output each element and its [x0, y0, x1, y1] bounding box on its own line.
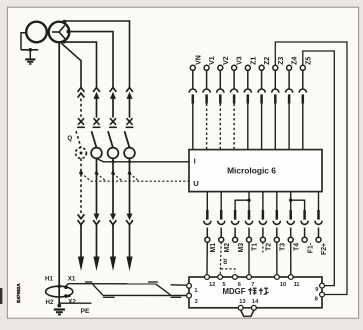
breaker Q pole 3: downstream drawout contact — [127, 214, 133, 221]
wire pole N (dashed) — [80, 99, 82, 118]
svg-text:12: 12 — [209, 282, 215, 288]
voltage tap pole N — [79, 171, 83, 175]
svg-text:10: 10 — [280, 282, 286, 288]
wire pole 2 lower — [112, 158, 114, 214]
wire Micrologic to contact M2 — [220, 192, 222, 210]
svg-text:M2: M2 — [224, 243, 231, 253]
wire Z1 to Micrologic — [247, 104, 249, 150]
scan mark left edge — [0, 288, 2, 304]
disconnect contact V2 (male pin) — [219, 94, 222, 103]
load arrow pole 1 — [93, 257, 99, 272]
wire pole 1 to load — [96, 224, 98, 258]
breaker Q pole N: upstream drawout contact — [78, 88, 85, 92]
current transformer pole 1 — [91, 148, 102, 159]
wire V2 to Micrologic — [219, 104, 221, 150]
wire pole 1 — [96, 98, 98, 117]
voltage tap pole 1 — [94, 170, 98, 175]
terminal V1 — [204, 65, 209, 70]
MDGF terminal 14 — [252, 305, 257, 310]
load arrow pole N — [78, 257, 84, 272]
disconnect contact V2 (female) — [217, 89, 224, 93]
svg-text:V2: V2 — [223, 56, 230, 65]
wire branch to M3 contact — [235, 200, 249, 210]
svg-text:E47682A: E47682A — [16, 283, 21, 303]
terminal M3 — [233, 237, 238, 242]
svg-text:F2+: F2+ — [321, 243, 328, 255]
wire to terminal T2 — [262, 228, 264, 238]
wire neutral from transformer — [61, 43, 81, 87]
terminal Z4 — [287, 65, 292, 70]
wire Z2 to Micrologic — [261, 104, 263, 150]
svg-text:or: or — [222, 258, 229, 265]
sensor secondary terminal X1 — [64, 285, 68, 289]
svg-text:T2: T2 — [266, 243, 273, 251]
disconnect contact V3 (male pin) — [233, 94, 236, 103]
svg-text:Z1: Z1 — [250, 57, 257, 65]
terminal M1 — [205, 237, 210, 242]
label CJK module glyph 2 — [259, 288, 269, 295]
breaker Q pole 3: blade — [125, 131, 130, 148]
disconnect contact M3 (female) — [232, 221, 239, 225]
disconnect contact VN (female) — [189, 89, 196, 93]
terminal T1 — [247, 237, 252, 242]
disconnect contact Z5 (male pin) — [302, 94, 305, 103]
wire terminal V2 stem — [219, 70, 221, 89]
svg-text:M3: M3 — [238, 243, 245, 253]
transformer T1 secondary winding (wye) — [49, 22, 70, 43]
disconnect contact M2 (female) — [218, 221, 225, 225]
terminal Z5 — [300, 65, 305, 70]
voltage tap pole 2 — [111, 170, 115, 175]
svg-text:U: U — [193, 179, 199, 188]
wire transformer neutral riser to ground CT — [58, 42, 60, 306]
current transformer pole 3 — [124, 148, 135, 159]
MDGF terminal 9 — [320, 283, 325, 288]
wire terminal V1 stem — [206, 70, 208, 89]
wire X1 pair upper run — [71, 283, 156, 285]
svg-text:Micrologic 6: Micrologic 6 — [227, 166, 276, 176]
breaker Q pole N: contact — [78, 118, 84, 125]
terminal T3 — [274, 237, 279, 242]
transformer T1 primary winding — [26, 22, 47, 43]
wire phase C from transformer — [65, 21, 130, 87]
wire pole 3 — [129, 98, 131, 117]
MDGF terminal 1 — [187, 283, 192, 288]
wire M2 alt to MDGF terminal 6 (dashed) — [221, 269, 235, 272]
terminal Z2 — [259, 65, 264, 70]
ground (system earth) — [25, 58, 35, 60]
breaker Q pole N: blade — [76, 131, 81, 148]
disconnect contact T3 (female) — [273, 221, 280, 225]
svg-text:1: 1 — [194, 288, 197, 294]
wire branch to F1- contact — [291, 200, 305, 210]
wire to terminal T4 — [290, 228, 292, 238]
wire into MDGF terminal 1 — [171, 284, 187, 286]
disconnect contact V1 (male pin) — [205, 94, 208, 103]
svg-text:8: 8 — [315, 297, 318, 303]
disconnect contact T3 (male pin) — [276, 210, 279, 220]
svg-text:V1: V1 — [209, 56, 216, 65]
label CJK module glyph 1 — [248, 288, 256, 295]
disconnect contact M3 (male pin) — [234, 210, 237, 220]
wire Micrologic to contact M1 — [206, 192, 208, 210]
wire to terminal M3 — [234, 228, 236, 238]
wire to terminal T3 — [276, 228, 278, 238]
twist crossover left — [93, 284, 103, 295]
terminal T2 — [260, 237, 265, 242]
wire Micrologic to contact T2 — [262, 192, 264, 210]
MDGF terminal 5 — [218, 275, 223, 280]
wire pole 3 to load — [129, 224, 131, 258]
svg-text:Z2: Z2 — [264, 57, 271, 65]
node PE junction — [57, 304, 61, 308]
wire to terminal M1 — [206, 228, 208, 238]
wire pole N to load — [80, 224, 82, 258]
svg-text:H2: H2 — [46, 299, 54, 306]
terminal Z1 — [245, 65, 250, 70]
breaker Q pole N: downstream drawout contact — [78, 214, 85, 218]
disconnect contact T2 (female) — [259, 221, 266, 225]
svg-text:H1: H1 — [45, 276, 53, 283]
disconnect contact Z3 (male pin) — [274, 94, 277, 103]
disconnect contact T2 (male pin) — [262, 210, 265, 220]
wire terminal VN stem — [192, 70, 194, 89]
disconnect contact F1- (female) — [301, 221, 308, 225]
ground CT (H1/H2 X1/X2 sensor) — [46, 286, 73, 297]
svg-text:T4: T4 — [293, 243, 300, 251]
MDGF terminal 10 — [275, 275, 280, 280]
MDGF terminal 8 — [320, 292, 325, 297]
wire V1 to Micrologic — [206, 104, 208, 150]
ground PE electrode — [54, 308, 65, 310]
node: transformer line terminals — [62, 20, 66, 24]
load arrow pole 3 — [126, 257, 132, 272]
breaker Q pole 1: blade — [92, 131, 97, 148]
wire transformer neutral to earth — [21, 33, 26, 50]
svg-text:X1: X1 — [68, 276, 76, 283]
wire to terminal F2+ — [318, 228, 320, 238]
breaker Q pole 3: upstream drawout contact — [126, 88, 133, 92]
wire pole 3 lower — [129, 158, 131, 214]
breaker Q pole 1: contact — [94, 118, 100, 125]
terminal Z3 — [273, 65, 278, 70]
svg-text:PE: PE — [80, 308, 90, 315]
sensor secondary terminal X2 — [64, 294, 68, 298]
svg-text:6: 6 — [238, 282, 241, 288]
current transformer pole N — [76, 148, 87, 159]
svg-text:T1: T1 — [252, 243, 259, 251]
disconnect contact M2 (male pin) — [220, 210, 223, 220]
disconnect contact F2+ (male pin) — [317, 210, 320, 220]
wire Z4 to Micrologic — [288, 104, 290, 150]
junction T1 / M3 branch — [247, 199, 250, 202]
svg-text:T3: T3 — [280, 243, 287, 251]
disconnect contact F2+ (female) — [315, 221, 322, 225]
MDGF terminal 11 — [288, 275, 293, 280]
terminal T4 — [288, 237, 293, 242]
wire T4 to MDGF terminal 11 — [290, 242, 292, 274]
terminal V3 — [232, 65, 237, 70]
load arrow pole 2 — [110, 257, 116, 272]
node: earth bar — [21, 49, 38, 51]
wire terminal Z4 stem — [288, 70, 290, 89]
svg-text:13: 13 — [239, 299, 245, 305]
disconnect contact M1 (male pin) — [206, 210, 209, 220]
disconnect contact Z1 (female) — [244, 89, 251, 93]
svg-text:14: 14 — [252, 299, 259, 305]
wire terminal Z2 stem — [261, 70, 263, 89]
current transformer pole 2 — [108, 148, 119, 159]
wire pole 1 lower — [96, 158, 98, 214]
voltage tap pole 3 — [127, 170, 131, 175]
breaker Q pole 3: contact — [127, 118, 133, 125]
wire T1 to MDGF terminal 7 — [248, 242, 250, 274]
wire M1 to MDGF terminal 12 — [206, 242, 208, 274]
wire terminal Z5 stem — [302, 70, 304, 89]
breaker Q pole 2: downstream drawout contact — [110, 214, 116, 221]
disconnect contact V1 (female) — [203, 89, 210, 93]
wire Z3 to MDGF terminal 8 — [275, 42, 347, 295]
breaker Q pole 2: blade — [108, 131, 113, 148]
wire Micrologic to contact T4 — [290, 192, 292, 210]
disconnect contact Z1 (male pin) — [247, 94, 250, 103]
wire terminal Z3 stem — [274, 70, 276, 89]
disconnect contact M1 (female) — [204, 221, 211, 225]
disconnect contact Z3 (female) — [272, 89, 279, 93]
MDGF terminal 3 — [187, 293, 192, 298]
wire T3 to MDGF terminal 10 — [276, 242, 278, 274]
terminal VN — [190, 65, 195, 70]
disconnect contact Z5 (female) — [299, 89, 306, 93]
disconnect contact V3 (female) — [231, 89, 238, 93]
jumper 13-14 — [241, 310, 254, 316]
disconnect contact T1 (male pin) — [248, 210, 251, 220]
svg-text:I: I — [194, 156, 196, 165]
wire T2 stub (dashed) — [262, 242, 264, 252]
svg-text:7: 7 — [251, 282, 254, 288]
svg-text:Z3: Z3 — [278, 57, 285, 65]
disconnect contact T1 (female) — [245, 221, 252, 225]
op-amp U1: Micrologic 6 trip unit — [189, 150, 322, 192]
MDGF terminal 12 — [205, 275, 210, 280]
terminal M2 — [219, 237, 224, 242]
breaker Q pole 2: contact — [110, 118, 116, 125]
wire Micrologic to contact F2+ — [318, 192, 320, 210]
wire to terminal T1 — [248, 228, 250, 238]
svg-text:X2: X2 — [68, 298, 76, 305]
disconnect contact T4 (male pin) — [289, 210, 292, 220]
disconnect contact Z2 (female) — [258, 89, 265, 93]
twist crossover right — [156, 284, 171, 295]
wire pole 2 — [112, 98, 114, 117]
svg-text:Z4: Z4 — [292, 57, 299, 65]
MDGF terminal 7 — [247, 275, 252, 280]
wire Z3 to Micrologic — [274, 104, 276, 150]
wire pole 2 to load — [112, 224, 114, 258]
disconnect contact Z4 (female) — [286, 89, 293, 93]
disconnect contact VN (male pin) — [192, 94, 195, 103]
wire Z5 to MDGF terminal 9 — [303, 51, 335, 286]
wire phase B from transformer — [69, 32, 114, 88]
wire voltage tap bus to Micrologic U input (dashed) — [81, 173, 91, 181]
svg-text:F1-: F1- — [307, 242, 314, 253]
wire V3 to Micrologic — [233, 104, 235, 150]
wire PE bus — [59, 302, 91, 304]
svg-text:3: 3 — [195, 299, 198, 305]
MDGF module box — [189, 277, 322, 308]
wire to terminal F1- — [304, 228, 306, 238]
terminal V2 — [218, 65, 223, 70]
wire pole N lower — [80, 158, 82, 214]
wire terminal Z1 stem — [247, 70, 249, 89]
wire Micrologic to contact T3 — [276, 192, 278, 210]
wire phase A from transformer — [65, 42, 97, 87]
svg-text:Z5: Z5 — [305, 57, 312, 65]
disconnect contact Z2 (male pin) — [260, 94, 263, 103]
terminal F2+ — [316, 237, 321, 242]
disconnect contact Z4 (male pin) — [288, 94, 291, 103]
svg-text:V3: V3 — [237, 56, 244, 65]
wire CT signal bus to Micrologic I input — [97, 159, 190, 162]
breaker Q pole 2: upstream drawout contact — [110, 88, 117, 92]
node: sensor primary junction — [57, 285, 61, 289]
junction on I bus — [112, 160, 115, 163]
svg-text:MDGF: MDGF — [223, 287, 246, 296]
svg-text:5: 5 — [222, 282, 225, 288]
disconnect contact F1- (male pin) — [303, 210, 306, 220]
svg-text:VN: VN — [195, 55, 202, 65]
MDGF terminal 6 — [233, 275, 238, 280]
wire to terminal M2 — [220, 228, 222, 238]
wire terminal V3 stem — [233, 70, 235, 89]
breaker Q pole 1: upstream drawout contact — [93, 88, 100, 92]
svg-text:Q: Q — [67, 135, 72, 142]
wire Micrologic to contact T1 — [248, 192, 250, 210]
wire Z5 to Micrologic — [302, 104, 304, 150]
wire VN to Micrologic — [192, 104, 194, 150]
disconnect contact T4 (female) — [287, 221, 294, 225]
breaker Q pole 1: downstream drawout contact — [94, 214, 100, 221]
terminal F1- — [302, 237, 307, 242]
wire M2 to MDGF terminal 5 (dashed) — [220, 242, 221, 274]
junction T4 / F1- branch — [289, 199, 292, 202]
svg-text:M1: M1 — [210, 243, 217, 253]
svg-text:11: 11 — [294, 282, 300, 288]
MDGF terminal 13 — [238, 305, 243, 310]
wire pair lower run to MDGF terminal 3 — [103, 294, 187, 296]
svg-text:9: 9 — [315, 287, 318, 293]
